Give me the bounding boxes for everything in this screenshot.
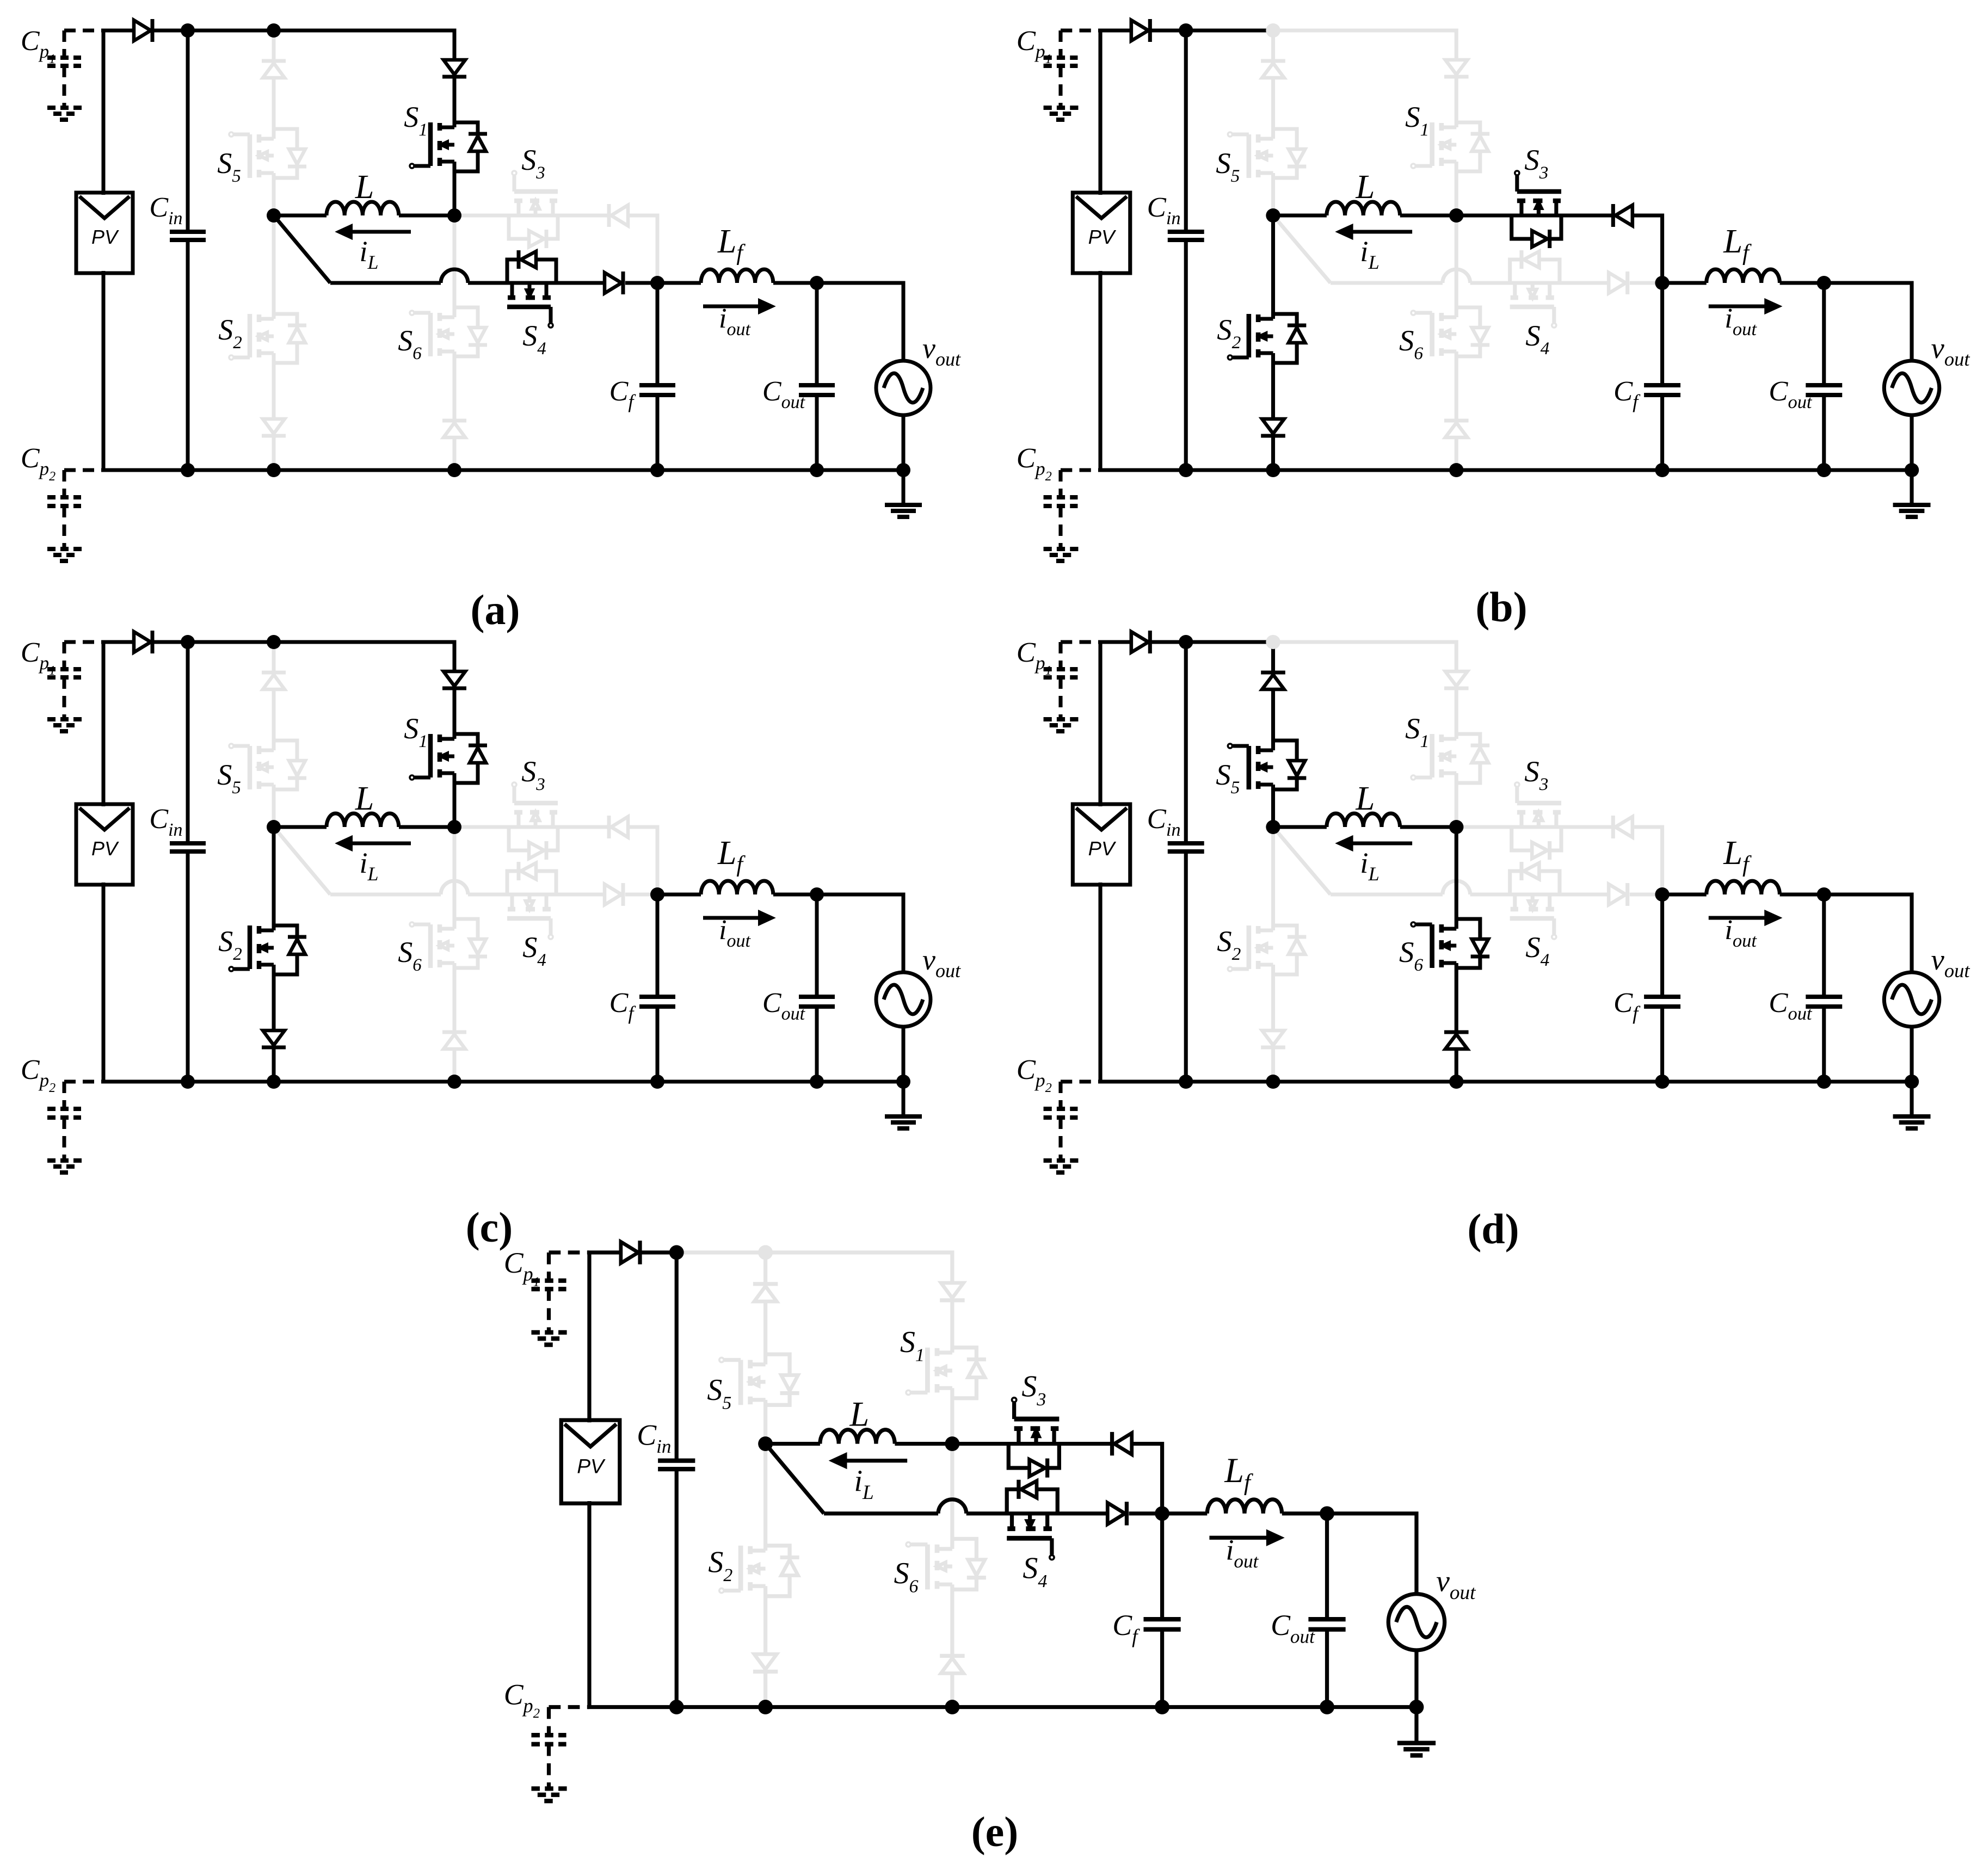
node bottom rail at Cf (panel b)	[1655, 463, 1669, 477]
node bottom rail at S6-leg (panel e)	[945, 1700, 959, 1714]
transistor S6 (inactive) (panel b)	[1411, 307, 1489, 356]
wire lower path to hop (panel e)	[824, 1511, 938, 1515]
capacitor Cin (panel c)	[186, 642, 190, 843]
wire D4 to node N (inactive) (panel c)	[625, 893, 657, 897]
wire lower path to hop (panel a)	[330, 281, 441, 285]
node bottom rail at Cin (panel b)	[1179, 463, 1193, 477]
wire S6 to D6 (inactive) (panel a)	[453, 351, 457, 419]
node bottom rail at S2-leg (panel a)	[267, 463, 281, 477]
wire node M2 to D3 (panel b)	[1456, 214, 1612, 218]
transistor S2 (panel b)	[1228, 314, 1306, 363]
transistor S2 (panel c)	[229, 925, 306, 974]
wire D2 to bottom rail (inactive) (panel a)	[272, 437, 276, 470]
diode D3 (upper path) (panel e)	[1110, 1432, 1114, 1455]
wire D1 to S1 (panel a)	[453, 78, 457, 127]
arrow iout (panel c)	[703, 916, 761, 920]
capacitor Cin (panel d)	[1184, 642, 1188, 843]
diode D5 (series with S5) (inactive) (panel e)	[753, 1282, 778, 1286]
node bottom rail at S2-leg (panel d)	[1266, 1075, 1280, 1089]
diode D6 (series with S6) (inactive) (panel b)	[1444, 419, 1469, 423]
ground Cp2 (dashed) (panel a)	[47, 547, 84, 551]
transistor S2 (inactive) (panel a)	[229, 314, 306, 363]
wire S5 to node M1 (inactive) (panel a)	[272, 173, 276, 215]
node S5-leg top junction (panel e)	[758, 1245, 773, 1260]
wire top rail (panel c)	[153, 642, 454, 671]
wire diagonal from node M1 (inactive) (panel d)	[1273, 827, 1330, 894]
node N (filter input) (panel b)	[1655, 276, 1669, 290]
arrow iout (panel e)	[1209, 1536, 1269, 1540]
wire top rail (panel a)	[153, 30, 454, 60]
node bottom rail at S6-leg (panel d)	[1449, 1075, 1463, 1089]
wire D5 to S5 (inactive) (panel b)	[1271, 78, 1275, 139]
ground Cp2 (dashed) (panel b)	[1044, 547, 1081, 551]
arrow iL (panel a)	[350, 230, 411, 234]
diode D4 (lower path) (inactive) (panel c)	[605, 884, 621, 905]
arrow iL (panel d)	[1350, 842, 1412, 846]
wire D1 to S1 (panel c)	[453, 690, 457, 739]
arrow iL (panel e)	[844, 1459, 907, 1462]
source vout (AC) (panel a)	[876, 361, 931, 415]
node L left (mid-point M1) (panel e)	[758, 1436, 773, 1451]
wire S6 to D6 (inactive) (panel c)	[453, 963, 457, 1031]
diode D4 (lower path) (panel a)	[605, 273, 621, 293]
diode D1 (series with S1) (panel c)	[444, 671, 465, 686]
wire to vout (panel e)	[1327, 1514, 1417, 1595]
wire top rail to D5 (inactive) (panel a)	[272, 30, 276, 61]
source vout (AC) (panel b)	[1884, 361, 1939, 415]
svg-text:PV: PV	[577, 1454, 606, 1477]
wire D5 to S5 (panel d)	[1271, 689, 1275, 750]
transistor S2 (inactive) (panel d)	[1228, 925, 1306, 974]
node L left (mid-point M1) (panel a)	[267, 208, 281, 223]
node Lf-Cout junction (panel b)	[1817, 276, 1831, 290]
capacitor Cp1 (parasitic, dashed) (panel e)	[549, 1251, 589, 1255]
node top-rail S5 tap (inactive) (panel e)	[758, 1245, 773, 1260]
node bottom rail at Cin (panel e)	[669, 1700, 684, 1714]
node N (filter input) (panel d)	[1655, 887, 1669, 902]
wire hop over middle leg (panel e)	[938, 1499, 966, 1514]
diode D-in (input blocking diode) (panel d)	[1131, 632, 1148, 652]
transistor S4 (panel e)	[1007, 1480, 1057, 1560]
node S5-leg top junction (panel a)	[267, 23, 281, 38]
node L right (mid-point M2) (panel e)	[945, 1436, 959, 1451]
wire S6 to D6 (panel d)	[1455, 963, 1458, 1031]
svg-text:L: L	[1355, 779, 1375, 817]
wire D6 to bottom rail (inactive) (panel e)	[950, 1673, 954, 1707]
wire D3 to corner down to node N (inactive) (panel c)	[629, 827, 657, 894]
wire node M2 to D3 (inactive) (panel a)	[454, 214, 608, 218]
node L right (mid-point M2) (panel b)	[1449, 208, 1463, 223]
transistor S1 (inactive) (panel d)	[1411, 734, 1489, 783]
wire left rail upper (PV drain) (panel e)	[589, 1252, 621, 1422]
node bottom rail at Cout (panel e)	[1320, 1700, 1334, 1714]
wire diagonal from node M1 (panel e)	[766, 1444, 824, 1514]
wire hop to D4 (panel e)	[966, 1511, 1108, 1515]
wire left rail upper (PV drain) (panel b)	[1100, 30, 1131, 195]
node bottom rail at S6-leg (panel c)	[447, 1075, 461, 1089]
wire left rail lower and bottom rail (panel e)	[589, 1501, 1417, 1707]
svg-text:PV: PV	[91, 837, 119, 860]
svg-text:L: L	[1355, 168, 1375, 206]
node Lf-Cout junction (panel c)	[810, 887, 824, 902]
node bottom rail at Cout (panel d)	[1817, 1075, 1831, 1089]
ground (output) (panel d)	[1910, 1082, 1914, 1115]
wire hop over middle leg (inactive) (panel d)	[1443, 881, 1470, 894]
node bottom rail at S6-leg (panel a)	[447, 463, 461, 477]
inductor Lf (panel b)	[1662, 281, 1707, 285]
diode D5 (series with S5) (inactive) (panel c)	[262, 671, 286, 675]
inductor L (panel c)	[274, 825, 327, 829]
source vout (AC) (panel d)	[1884, 972, 1939, 1027]
wire top rail to D5 (inactive) (panel c)	[272, 642, 276, 672]
wire left rail lower and bottom rail (panel b)	[1100, 271, 1912, 470]
wire hop to D4 (panel a)	[468, 281, 605, 285]
diode D2 (series with S2) (inactive) (panel a)	[263, 419, 285, 434]
wire D2 to bottom rail (panel c)	[272, 1048, 276, 1082]
node bottom rail at Cout (panel b)	[1817, 463, 1831, 477]
wire S5 to node M1 (inactive) (panel e)	[763, 1400, 767, 1444]
wire D4 to node N (inactive) (panel d)	[1630, 893, 1662, 897]
wire D1 to S1 (inactive) (panel d)	[1455, 690, 1458, 739]
wire D4 to node N (inactive) (panel b)	[1630, 281, 1662, 285]
wire S2 to D2 (panel c)	[272, 965, 276, 1030]
node Cin top junction (panel b)	[1179, 23, 1193, 38]
capacitor Cout (panel b)	[1822, 283, 1826, 385]
transistor S5 (inactive) (panel a)	[229, 129, 306, 178]
capacitor Cp2 (parasitic, dashed) (panel c)	[64, 1080, 103, 1084]
capacitor Cp2 (parasitic, dashed) (panel a)	[64, 468, 103, 472]
wire top rail to D5 (panel d)	[1271, 642, 1275, 672]
transistor S4 (inactive) (panel b)	[1510, 250, 1560, 328]
transistor S4 (inactive) (panel c)	[507, 862, 556, 939]
node bottom rail at vout (panel c)	[896, 1075, 910, 1089]
transistor S1 (inactive) (panel b)	[1411, 122, 1489, 171]
diode D2 (series with S2) (inactive) (panel e)	[754, 1654, 777, 1669]
wire S1 source to node M2 (panel c)	[453, 773, 457, 827]
wire node M2 to D3 (inactive) (panel d)	[1456, 825, 1612, 829]
diode D-in (input blocking diode) (panel c)	[134, 632, 151, 652]
node top-rail S5 tap (inactive) (panel d)	[1266, 635, 1280, 649]
capacitor Cf (panel e)	[1160, 1514, 1164, 1619]
capacitor Cout (panel e)	[1325, 1514, 1329, 1619]
node bottom rail at Cf (panel e)	[1155, 1700, 1169, 1714]
capacitor Cin (panel a)	[186, 30, 190, 232]
wire top rail (panel b)	[1151, 29, 1273, 33]
arrow iout (panel d)	[1709, 916, 1768, 920]
svg-text:(b): (b)	[1475, 583, 1527, 631]
diode D5 (series with S5) (panel d)	[1261, 671, 1285, 675]
capacitor Cp2 (parasitic, dashed) (panel d)	[1061, 1080, 1100, 1084]
node L left (mid-point M1) (panel c)	[267, 820, 281, 834]
wire D2 to bottom rail (inactive) (panel d)	[1271, 1048, 1275, 1082]
wire node M2 to S6 (panel d)	[1455, 827, 1458, 929]
wire D2 to bottom rail (panel b)	[1271, 437, 1275, 470]
wire top rail (inactive segment) (panel e)	[676, 1252, 952, 1283]
capacitor Cout (panel c)	[815, 894, 819, 997]
node bottom rail at Cin (panel a)	[181, 463, 195, 477]
transistor S3 (inactive) (panel c)	[509, 782, 558, 860]
wire lower path to hop (inactive) (panel b)	[1331, 281, 1443, 285]
wire D4 to node N (panel e)	[1129, 1511, 1162, 1515]
PV source (panel c)	[76, 804, 133, 885]
wire S5 to node M1 (inactive) (panel b)	[1271, 173, 1275, 215]
transistor S3 (panel e)	[1008, 1398, 1059, 1478]
PV source (panel a)	[76, 193, 133, 273]
node N (filter input) (panel e)	[1155, 1506, 1169, 1521]
inductor Lf (panel d)	[1662, 893, 1707, 897]
diode D5 (series with S5) (inactive) (panel b)	[1261, 59, 1285, 63]
wire D2 to bottom rail (inactive) (panel e)	[763, 1673, 767, 1707]
wire S6 to D6 (inactive) (panel b)	[1455, 351, 1458, 419]
diode D1 (series with S1) (inactive) (panel d)	[1445, 671, 1468, 686]
inductor L (panel d)	[1273, 825, 1326, 829]
capacitor Cin (panel b)	[1184, 30, 1188, 232]
wire S2 to D2 (inactive) (panel e)	[763, 1586, 767, 1654]
ground Cp1 (dashed) (panel b)	[1044, 106, 1081, 110]
wire node M2 to S6 (inactive) (panel b)	[1455, 215, 1458, 317]
diode D5 (series with S5) (inactive) (panel a)	[262, 59, 286, 63]
node top-rail S5 tap (inactive) (panel b)	[1266, 23, 1280, 38]
inductor L (panel b)	[1273, 214, 1326, 218]
ground (output) (panel c)	[902, 1082, 906, 1115]
svg-text:PV: PV	[1088, 226, 1117, 248]
PV source (panel d)	[1073, 804, 1130, 885]
wire hop over middle leg (inactive) (panel b)	[1443, 269, 1470, 283]
node Lf-Cout junction (panel d)	[1817, 887, 1831, 902]
wire D4 to node N (panel a)	[625, 281, 657, 285]
capacitor Cf (panel d)	[1660, 894, 1664, 997]
arrow iout (panel a)	[703, 305, 761, 308]
inductor L (panel e)	[766, 1442, 820, 1446]
wire D6 to bottom rail (panel d)	[1455, 1049, 1458, 1082]
wire top rail (panel e)	[641, 1251, 676, 1255]
wire left rail lower and bottom rail (panel c)	[103, 883, 903, 1082]
node bottom rail at S6-leg (panel b)	[1449, 463, 1463, 477]
wire top rail (inactive segment) (panel b)	[1273, 30, 1456, 60]
transistor S4 (panel a)	[507, 250, 556, 328]
arrow iL (panel c)	[350, 842, 411, 846]
wire D1 to S1 (inactive) (panel b)	[1455, 78, 1458, 127]
wire D3 to corner down to node N (inactive) (panel a)	[629, 215, 657, 283]
diode D1 (series with S1) (panel a)	[444, 60, 465, 75]
inductor L (panel a)	[274, 214, 327, 218]
transistor S1 (panel a)	[410, 122, 487, 171]
diode D3 (upper path) (inactive) (panel d)	[1611, 816, 1615, 838]
wire to vout (panel c)	[817, 894, 903, 973]
inductor Lf (panel c)	[657, 893, 701, 897]
node bottom rail at S2-leg (panel c)	[267, 1075, 281, 1089]
node bottom rail at Cin (panel c)	[181, 1075, 195, 1089]
arrow iout (panel b)	[1709, 305, 1768, 308]
transistor S5 (inactive) (panel c)	[229, 740, 306, 789]
node bottom rail at Cf (panel a)	[650, 463, 664, 477]
transistor S5 (panel d)	[1228, 740, 1306, 789]
svg-text:L: L	[849, 1394, 869, 1433]
diode D2 (series with S2) (panel b)	[1262, 419, 1284, 434]
node S5-leg top junction (panel c)	[267, 635, 281, 649]
capacitor Cp1 (parasitic, dashed) (panel d)	[1061, 640, 1100, 644]
wire left rail upper (PV drain) (panel d)	[1100, 642, 1131, 806]
wire hop over middle leg (panel a)	[441, 269, 468, 283]
transistor S2 (inactive) (panel e)	[719, 1546, 799, 1596]
wire hop to D4 (inactive) (panel b)	[1470, 281, 1609, 285]
wire hop to D4 (inactive) (panel c)	[468, 893, 605, 897]
transistor S6 (inactive) (panel a)	[410, 307, 487, 356]
wire lower path to hop (inactive) (panel d)	[1331, 893, 1443, 897]
wire D3 to corner down to node N (panel b)	[1633, 215, 1662, 283]
PV source (panel b)	[1073, 193, 1130, 273]
wire top rail (inactive segment) (panel d)	[1273, 642, 1456, 671]
wire S2 to D2 (inactive) (panel d)	[1271, 965, 1275, 1030]
diode D3 (upper path) (inactive) (panel a)	[607, 204, 611, 227]
wire left rail lower and bottom rail (panel a)	[103, 271, 903, 470]
node bottom rail at Cf (panel c)	[650, 1075, 664, 1089]
wire node M1 to S2 (inactive) (panel a)	[272, 215, 276, 319]
node bottom rail at S2-leg (panel e)	[758, 1700, 773, 1714]
svg-text:(e): (e)	[971, 1808, 1019, 1855]
ground (output) (panel e)	[1414, 1707, 1418, 1741]
wire to vout (panel b)	[1824, 283, 1912, 361]
capacitor Cout (panel a)	[815, 283, 819, 385]
diode D1 (series with S1) (inactive) (panel b)	[1445, 60, 1468, 75]
transistor S5 (inactive) (panel e)	[719, 1354, 799, 1405]
source vout (AC) (panel e)	[1388, 1594, 1444, 1650]
svg-text:PV: PV	[91, 226, 119, 248]
ground (output) (panel b)	[1910, 470, 1914, 503]
inductor Lf (panel a)	[657, 281, 701, 285]
wire node M2 to S6 (inactive) (panel c)	[453, 827, 457, 929]
capacitor Cp1 (parasitic, dashed) (panel a)	[64, 29, 103, 33]
wire D6 to bottom rail (inactive) (panel a)	[453, 437, 457, 470]
wire S1 source to node M2 (inactive) (panel d)	[1455, 773, 1458, 827]
diode D6 (series with S6) (panel d)	[1444, 1030, 1469, 1034]
node Cin top junction (panel d)	[1179, 635, 1193, 649]
wire S6 to D6 (inactive) (panel e)	[950, 1584, 954, 1655]
wire S5 to node M1 (panel d)	[1271, 785, 1275, 827]
capacitor Cf (panel a)	[656, 283, 660, 385]
source vout (AC) (panel c)	[876, 972, 931, 1027]
wire D3 to corner down to node N (panel e)	[1132, 1444, 1162, 1514]
ground Cp1 (dashed) (panel a)	[47, 106, 84, 110]
wire to vout (panel d)	[1824, 894, 1912, 973]
capacitor Cp2 (parasitic, dashed) (panel e)	[549, 1705, 589, 1709]
ground Cp1 (dashed) (panel c)	[47, 717, 84, 721]
node L left (mid-point M1) (panel b)	[1266, 208, 1280, 223]
ground Cp2 (dashed) (panel e)	[531, 1786, 569, 1791]
diode D3 (upper path) (inactive) (panel c)	[607, 816, 611, 838]
svg-text:L: L	[355, 169, 374, 206]
node S5-leg top junction (panel d)	[1266, 635, 1280, 649]
wire top rail (panel d)	[1151, 640, 1273, 644]
diode D-in (input blocking diode) (panel b)	[1131, 20, 1148, 41]
wire node M2 to S6 (inactive) (panel a)	[453, 215, 457, 317]
inductor Lf (panel e)	[1162, 1511, 1208, 1515]
PV source (panel e)	[561, 1420, 620, 1503]
node bottom rail at S2-leg (panel b)	[1266, 463, 1280, 477]
wire D3 to corner down to node N (inactive) (panel d)	[1633, 827, 1662, 894]
wire node M2 to D3 (inactive) (panel c)	[454, 825, 608, 829]
capacitor Cf (panel c)	[656, 894, 660, 997]
node L left (mid-point M1) (panel d)	[1266, 820, 1280, 834]
svg-text:PV: PV	[1088, 837, 1117, 860]
node bottom rail at vout (panel d)	[1905, 1075, 1919, 1089]
wire top rail to D5 (inactive) (panel e)	[763, 1252, 767, 1284]
ground (output) (panel a)	[902, 470, 906, 503]
diode D4 (lower path) (inactive) (panel b)	[1609, 273, 1625, 293]
ground Cp1 (dashed) (panel e)	[531, 1330, 569, 1335]
node Cin top junction (panel e)	[669, 1245, 684, 1260]
node bottom rail at Cout (panel a)	[810, 463, 824, 477]
arrow iL (panel b)	[1350, 230, 1412, 234]
diode D3 (upper path) (panel b)	[1611, 204, 1615, 227]
svg-text:L: L	[355, 780, 374, 817]
wire D1 to S1 (inactive) (panel e)	[950, 1302, 954, 1353]
svg-text:(d): (d)	[1467, 1205, 1519, 1252]
wire S2 to D2 (panel b)	[1271, 353, 1275, 419]
wire S2 to D2 (inactive) (panel a)	[272, 353, 276, 419]
diode D4 (lower path) (panel e)	[1107, 1503, 1125, 1524]
node Cin top junction (panel a)	[181, 23, 195, 38]
transistor S6 (panel d)	[1411, 919, 1489, 968]
wire node M2 to D3 (panel e)	[952, 1442, 1112, 1446]
transistor S5 (inactive) (panel b)	[1228, 129, 1306, 178]
wire diagonal from node M1 (inactive) (panel c)	[274, 827, 330, 894]
capacitor Cf (panel b)	[1660, 283, 1664, 385]
wire D6 to bottom rail (inactive) (panel c)	[453, 1049, 457, 1082]
transistor S1 (inactive) (panel e)	[906, 1348, 986, 1398]
diode D4 (lower path) (inactive) (panel d)	[1609, 884, 1625, 905]
capacitor Cp1 (parasitic, dashed) (panel b)	[1061, 29, 1100, 33]
wire S1 source to node M2 (panel a)	[453, 162, 457, 215]
node bottom rail at Cf (panel d)	[1655, 1075, 1669, 1089]
diode D6 (series with S6) (inactive) (panel c)	[442, 1030, 466, 1034]
node bottom rail at Cin (panel d)	[1179, 1075, 1193, 1089]
capacitor Cout (panel d)	[1822, 894, 1826, 997]
wire S1 source to node M2 (inactive) (panel e)	[950, 1388, 954, 1443]
node bottom rail at vout (panel e)	[1409, 1700, 1424, 1714]
wire S5 to node M1 (inactive) (panel c)	[272, 785, 276, 827]
wire D6 to bottom rail (inactive) (panel b)	[1455, 437, 1458, 470]
diode D6 (series with S6) (inactive) (panel e)	[940, 1654, 964, 1658]
wire D5 to S5 (inactive) (panel c)	[272, 689, 276, 750]
transistor S3 (inactive) (panel a)	[509, 171, 558, 248]
diode D2 (series with S2) (inactive) (panel d)	[1262, 1030, 1284, 1045]
ground Cp2 (dashed) (panel d)	[1044, 1158, 1081, 1163]
transistor S1 (panel c)	[410, 734, 487, 783]
node N (filter input) (panel c)	[650, 887, 664, 902]
node L right (mid-point M2) (panel a)	[447, 208, 461, 223]
node bottom rail at vout (panel b)	[1905, 463, 1919, 477]
transistor S6 (inactive) (panel e)	[906, 1539, 986, 1589]
node Lf-Cout junction (panel e)	[1320, 1506, 1334, 1521]
wire lower path to hop (inactive) (panel c)	[330, 893, 441, 897]
diode D-in (input blocking diode) (panel a)	[134, 20, 151, 41]
wire D5 to S5 (inactive) (panel e)	[763, 1301, 767, 1365]
wire top rail to D5 (inactive) (panel b)	[1271, 30, 1275, 61]
node bottom rail at Cout (panel c)	[810, 1075, 824, 1089]
node S5-leg top junction (panel b)	[1266, 23, 1280, 38]
transistor S3 (panel b)	[1512, 171, 1561, 248]
wire node M1 to S2 (panel c)	[272, 827, 276, 930]
diode D6 (series with S6) (inactive) (panel a)	[442, 419, 466, 423]
node Cin top junction (panel c)	[181, 635, 195, 649]
wire hop over middle leg (inactive) (panel c)	[441, 881, 468, 894]
wire diagonal from node M1 (inactive) (panel b)	[1273, 215, 1330, 283]
capacitor Cp2 (parasitic, dashed) (panel b)	[1061, 468, 1100, 472]
wire D5 to S5 (inactive) (panel a)	[272, 78, 276, 139]
svg-text:(a): (a)	[471, 586, 520, 633]
capacitor Cp1 (parasitic, dashed) (panel c)	[64, 640, 103, 644]
